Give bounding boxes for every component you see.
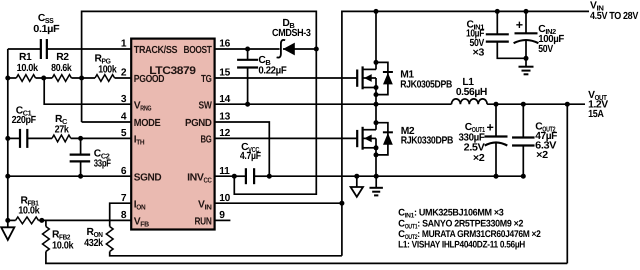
svg-text:10.0k: 10.0k (17, 63, 39, 74)
svg-text:0.56µH: 0.56µH (456, 87, 487, 98)
svg-text:8: 8 (121, 210, 127, 221)
svg-text:10: 10 (219, 193, 230, 204)
svg-text:SGND: SGND (134, 172, 162, 183)
svg-text:15: 15 (219, 68, 230, 79)
svg-text:TRACK/SS: TRACK/SS (134, 45, 178, 56)
svg-text:SW: SW (199, 100, 213, 111)
svg-text:12: 12 (219, 128, 230, 139)
svg-text:4.5V TO 28V: 4.5V TO 28V (590, 11, 638, 22)
svg-text:RUN: RUN (195, 217, 212, 228)
svg-text:80.6k: 80.6k (51, 63, 72, 74)
svg-text:TG: TG (201, 74, 212, 85)
svg-text:50V: 50V (538, 44, 553, 55)
svg-text:×2: ×2 (473, 153, 485, 164)
svg-text:PGND: PGND (185, 118, 212, 129)
svg-text:L1: VISHAY IHLP4040DZ-11 0.56µ: L1: VISHAY IHLP4040DZ-11 0.56µH (398, 239, 525, 250)
svg-text:1: 1 (121, 39, 127, 50)
svg-text:+: + (487, 120, 494, 134)
svg-text:BOOST: BOOST (184, 45, 213, 56)
svg-text:RJK0330DPB: RJK0330DPB (401, 135, 453, 146)
svg-text:+: + (516, 18, 523, 32)
svg-text:16: 16 (219, 39, 230, 50)
svg-text:RJK0305DPB: RJK0305DPB (400, 79, 452, 90)
svg-text:100k: 100k (98, 64, 117, 75)
svg-text:9: 9 (219, 210, 225, 221)
svg-text:×3: ×3 (473, 48, 485, 59)
svg-text:3: 3 (121, 94, 127, 105)
svg-text:R1: R1 (19, 52, 32, 63)
svg-text:15A: 15A (588, 109, 604, 120)
svg-text:×2: ×2 (536, 150, 548, 161)
svg-text:0.22µF: 0.22µF (258, 65, 286, 76)
svg-text:0.1µF: 0.1µF (33, 24, 59, 35)
svg-text:432k: 432k (84, 238, 103, 249)
svg-text:14: 14 (219, 94, 230, 105)
svg-text:33pF: 33pF (94, 158, 111, 169)
svg-text:5: 5 (121, 128, 127, 139)
svg-text:7: 7 (121, 193, 127, 204)
svg-text:6: 6 (121, 166, 127, 177)
svg-text:BG: BG (201, 135, 212, 146)
svg-text:MODE: MODE (134, 118, 161, 129)
svg-text:CMDSH-3: CMDSH-3 (272, 28, 311, 39)
svg-text:27k: 27k (55, 125, 70, 136)
svg-text:13: 13 (219, 112, 230, 123)
svg-text:R2: R2 (56, 52, 69, 63)
svg-text:2: 2 (121, 68, 127, 79)
svg-text:220pF: 220pF (12, 115, 36, 126)
svg-text:2.5V: 2.5V (464, 142, 485, 153)
svg-text:11: 11 (219, 166, 230, 177)
svg-text:LTC3879: LTC3879 (149, 65, 196, 77)
svg-text:10.0k: 10.0k (18, 205, 40, 216)
svg-text:4.7µF: 4.7µF (240, 151, 261, 162)
svg-text:10.0k: 10.0k (52, 240, 74, 251)
svg-text:4: 4 (121, 112, 127, 123)
